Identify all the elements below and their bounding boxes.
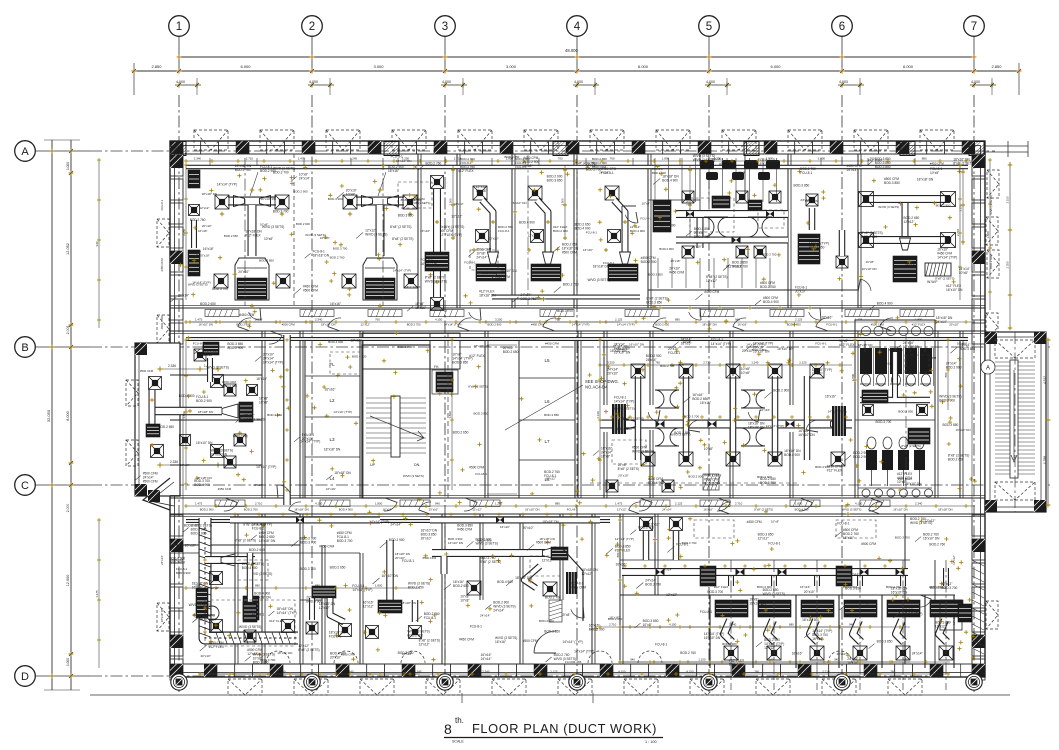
svg-text:16"x16": 16"x16" xyxy=(883,362,893,366)
svg-text:#12" FLEX: #12" FLEX xyxy=(209,645,225,649)
svg-text:BOD.3 850: BOD.3 850 xyxy=(648,272,663,276)
svg-text:4.150: 4.150 xyxy=(618,670,626,674)
column xyxy=(236,141,249,154)
svg-text:#500 CFM: #500 CFM xyxy=(282,323,296,327)
sign xyxy=(205,310,239,317)
svg-text:FCU-8-1: FCU-8-1 xyxy=(586,231,597,235)
brace xyxy=(986,313,998,341)
svg-text:BOD.2 760: BOD.2 760 xyxy=(760,285,776,289)
svg-text:880: 880 xyxy=(315,584,320,588)
svg-text:2.336: 2.336 xyxy=(168,364,176,368)
svg-text:W/VD (3 SETS): W/VD (3 SETS) xyxy=(632,449,654,453)
grid stem 1 xyxy=(178,36,180,71)
svg-text:14"x14" (TYP): 14"x14" (TYP) xyxy=(369,520,389,524)
svg-text:FCU-8-1: FCU-8-1 xyxy=(470,625,482,629)
wall xyxy=(857,154,859,308)
unit grille xyxy=(844,600,877,617)
svg-text:10"x8": 10"x8" xyxy=(460,599,469,603)
window mullion xyxy=(972,203,985,224)
door xyxy=(277,485,290,494)
wall xyxy=(170,464,262,466)
svg-text:FCU-8-1: FCU-8-1 xyxy=(498,229,510,233)
sub dimension 4.000 xyxy=(175,84,201,86)
svg-text:3.150: 3.150 xyxy=(959,204,963,211)
svg-text:8"x8" (2 SETS): 8"x8" (2 SETS) xyxy=(468,385,487,389)
damper xyxy=(656,568,665,575)
sign xyxy=(215,500,245,507)
diffuser xyxy=(631,364,645,378)
window mullion xyxy=(350,141,368,154)
svg-text:#450 CFM: #450 CFM xyxy=(233,435,248,439)
svg-text:BOD.2 760: BOD.2 760 xyxy=(244,508,258,512)
riser xyxy=(679,158,681,166)
svg-text:W/VD (3 SETS): W/VD (3 SETS) xyxy=(193,613,214,617)
svg-text:#450 CFM: #450 CFM xyxy=(218,487,232,491)
unit grille xyxy=(887,600,920,617)
svg-text:12"x12": 12"x12" xyxy=(363,605,374,609)
brace xyxy=(624,679,658,695)
duct run xyxy=(804,376,811,460)
svg-text:10"x8": 10"x8" xyxy=(259,401,268,405)
svg-text:12"x12": 12"x12" xyxy=(758,536,769,540)
inner dim xyxy=(620,626,860,628)
wc xyxy=(882,450,893,470)
basin xyxy=(911,326,920,335)
svg-text:BOD.3 700: BOD.3 700 xyxy=(212,287,228,291)
svg-text:BOD.4 900: BOD.4 900 xyxy=(352,355,367,359)
svg-text:16"x16": 16"x16" xyxy=(738,323,748,327)
brace xyxy=(656,130,690,150)
window mullion xyxy=(465,141,483,154)
duct run xyxy=(412,600,419,622)
diffuser xyxy=(211,445,224,458)
svg-text:14"x14" (TYP): 14"x14" (TYP) xyxy=(766,424,784,428)
svg-text:4.000: 4.000 xyxy=(971,80,980,84)
svg-text:FCU-8-1: FCU-8-1 xyxy=(160,199,164,210)
svg-text:3.000: 3.000 xyxy=(373,64,384,69)
svg-text:W/VD (3 SETS): W/VD (3 SETS) xyxy=(588,278,610,282)
wall xyxy=(654,514,656,595)
svg-text:BOD.3 700: BOD.3 700 xyxy=(260,658,275,662)
svg-text:12"x12": 12"x12" xyxy=(542,559,553,563)
diffuser xyxy=(343,195,357,209)
svg-text:BOD.2 650: BOD.2 650 xyxy=(655,323,669,327)
svg-text:#12" FLEX: #12" FLEX xyxy=(827,469,843,473)
diffuser xyxy=(275,195,289,209)
unit grille xyxy=(146,424,160,437)
svg-text:2.340: 2.340 xyxy=(255,318,263,322)
svg-text:BOD.4 900: BOD.4 900 xyxy=(200,618,216,622)
window mullion xyxy=(972,275,985,296)
unit grille xyxy=(715,600,748,617)
svg-text:12"x12": 12"x12" xyxy=(900,459,910,463)
svg-text:20"x10": 20"x10" xyxy=(199,253,209,257)
grid centerline xyxy=(90,484,1050,486)
dim row xyxy=(186,321,975,323)
window mullion xyxy=(170,635,183,656)
svg-text:6.000: 6.000 xyxy=(240,64,251,69)
diffuser xyxy=(211,375,224,388)
partition dashed xyxy=(447,333,449,498)
duct run xyxy=(191,220,197,248)
shear wall marker xyxy=(171,142,186,156)
diffuser xyxy=(736,191,748,203)
column xyxy=(1034,332,1046,344)
svg-text:16"x10" DN: 16"x10" DN xyxy=(956,428,971,432)
sign xyxy=(430,310,464,317)
door xyxy=(689,312,701,320)
column xyxy=(864,664,877,677)
svg-text:BOD.4 900: BOD.4 900 xyxy=(328,197,343,201)
column xyxy=(1034,500,1046,512)
duct run xyxy=(676,210,788,218)
inner dim xyxy=(660,307,830,309)
door xyxy=(629,502,641,510)
basin xyxy=(887,489,895,497)
door xyxy=(869,502,881,510)
grid centerline xyxy=(841,95,843,692)
svg-text:SCALE: SCALE xyxy=(452,740,464,744)
svg-text:14"x14" (TYP): 14"x14" (TYP) xyxy=(574,649,594,653)
svg-text:16"x10" DN: 16"x10" DN xyxy=(923,537,940,541)
svg-text:BOD.3 850: BOD.3 850 xyxy=(474,412,489,416)
unit grille xyxy=(608,264,638,281)
grid stem 6 xyxy=(841,36,843,71)
grid bubble 3 xyxy=(435,16,456,37)
window mullion xyxy=(714,664,732,677)
svg-text:BOD.4 900: BOD.4 900 xyxy=(497,580,513,584)
window mullion xyxy=(499,664,517,677)
svg-text:8"x8" (2 SETS): 8"x8" (2 SETS) xyxy=(935,277,954,281)
svg-text:4: 4 xyxy=(574,21,581,33)
svg-text:1.245: 1.245 xyxy=(414,670,422,674)
door xyxy=(249,312,261,320)
unit grille xyxy=(239,402,253,422)
riser xyxy=(444,158,446,166)
diffuser xyxy=(224,384,236,396)
window mullion xyxy=(843,141,861,154)
svg-text:16"x10" DN: 16"x10" DN xyxy=(500,269,517,273)
svg-text:BOD.3 700: BOD.3 700 xyxy=(407,323,421,327)
room column wall xyxy=(305,340,360,498)
svg-text:2: 2 xyxy=(309,21,315,33)
duct run xyxy=(376,205,385,256)
svg-text:BOD.3 700: BOD.3 700 xyxy=(273,171,289,175)
stair arrow xyxy=(1011,370,1017,462)
grid centerline xyxy=(90,675,940,677)
svg-text:1.800: 1.800 xyxy=(448,411,452,419)
wall xyxy=(261,331,263,498)
door xyxy=(458,318,471,327)
svg-text:BOD.2 650: BOD.2 650 xyxy=(787,323,801,327)
svg-text:BOD.3 850: BOD.3 850 xyxy=(898,410,913,414)
svg-text:BOD.4 900: BOD.4 900 xyxy=(662,178,678,182)
svg-text:BOD.2 650: BOD.2 650 xyxy=(948,457,964,461)
sub dimension 4.000 xyxy=(441,84,467,86)
svg-text:8"x8" (2 SETS): 8"x8" (2 SETS) xyxy=(298,648,319,652)
dim row xyxy=(200,673,950,675)
window mullion xyxy=(284,141,302,154)
window mullion xyxy=(943,664,961,677)
diffuser xyxy=(810,364,824,378)
svg-text:BOD.2 760: BOD.2 760 xyxy=(645,583,661,587)
diffuser xyxy=(605,186,619,200)
window mullion xyxy=(249,141,267,154)
svg-text:#12" FLEX: #12" FLEX xyxy=(839,343,855,347)
window mullion xyxy=(697,664,715,677)
duct run xyxy=(643,531,650,560)
diffuser xyxy=(679,452,693,466)
v dim row xyxy=(185,165,187,300)
duct run xyxy=(676,237,788,244)
column xyxy=(170,539,183,552)
svg-text:FCU-8-1: FCU-8-1 xyxy=(402,559,414,563)
sign xyxy=(845,310,879,317)
svg-text:1.245: 1.245 xyxy=(350,157,358,161)
svg-text:16"x10" DN: 16"x10" DN xyxy=(777,347,794,351)
basin xyxy=(886,326,895,335)
svg-text:20"x10": 20"x10" xyxy=(607,371,618,375)
door xyxy=(809,312,821,320)
window mullion xyxy=(763,664,781,677)
svg-text:BOD.3 700: BOD.3 700 xyxy=(682,541,697,545)
basin xyxy=(874,326,883,335)
duct run xyxy=(186,165,968,170)
svg-text:BOD.4 900: BOD.4 900 xyxy=(339,508,353,512)
window mullion xyxy=(972,611,985,632)
svg-text:12"x12": 12"x12" xyxy=(849,572,859,576)
diffuser xyxy=(640,518,653,531)
diffuser xyxy=(896,646,910,660)
svg-text:2.340: 2.340 xyxy=(315,318,323,322)
unit grille xyxy=(188,170,200,188)
window mullion xyxy=(170,611,183,632)
svg-text:FCU-8-1: FCU-8-1 xyxy=(616,347,627,351)
column xyxy=(930,664,943,677)
svg-text:W/VD (3 SETS): W/VD (3 SETS) xyxy=(842,508,862,512)
grid bubble 5 xyxy=(699,16,720,37)
v dim row xyxy=(947,340,949,410)
svg-text:16"x16": 16"x16" xyxy=(812,637,823,641)
diffuser xyxy=(409,626,422,639)
window mullion xyxy=(531,141,549,154)
svg-text:16"x16": 16"x16" xyxy=(320,236,330,240)
brace xyxy=(360,679,394,695)
svg-text:24"x14": 24"x14" xyxy=(178,293,189,297)
unit grille xyxy=(748,200,762,210)
wall line xyxy=(170,153,985,155)
brace xyxy=(920,130,954,150)
duct run xyxy=(247,553,254,602)
diffuser xyxy=(247,385,258,396)
dashed boxes xyxy=(398,182,432,208)
diffuser xyxy=(473,186,487,200)
brace xyxy=(995,340,1035,358)
top-right extension xyxy=(985,145,1028,147)
svg-text:BOD.2 900: BOD.2 900 xyxy=(660,224,676,228)
svg-text:1.800: 1.800 xyxy=(375,584,383,588)
basin xyxy=(912,489,920,497)
svg-text:BOD.3 850: BOD.3 850 xyxy=(959,347,975,351)
unit grille xyxy=(836,566,852,586)
brace xyxy=(995,482,1035,500)
svg-text:18"x18" DN: 18"x18" DN xyxy=(313,253,330,257)
svg-text:BOD.4 900: BOD.4 900 xyxy=(242,566,258,570)
svg-text:10"x8": 10"x8" xyxy=(523,164,532,168)
svg-text:12"x12": 12"x12" xyxy=(319,606,330,610)
damper xyxy=(686,211,694,217)
unit grille xyxy=(758,600,791,617)
svg-text:18"x18" DN: 18"x18" DN xyxy=(903,345,920,349)
svg-text:BOD.4 900: BOD.4 900 xyxy=(784,453,800,457)
diffuser xyxy=(768,452,782,466)
svg-text:#12" FLEX: #12" FLEX xyxy=(726,265,742,269)
svg-text:W/VD (3 SETS): W/VD (3 SETS) xyxy=(207,366,229,370)
svg-text:24"x14": 24"x14" xyxy=(662,568,672,572)
brace xyxy=(326,130,360,150)
svg-text:6.000: 6.000 xyxy=(638,64,649,69)
door xyxy=(648,412,658,422)
diffuser xyxy=(941,233,956,248)
grid marker xyxy=(437,674,453,690)
svg-text:BOD.2 650: BOD.2 650 xyxy=(608,617,623,621)
svg-text:16"x16": 16"x16" xyxy=(758,162,769,166)
svg-text:BOD.2 900: BOD.2 900 xyxy=(191,532,207,536)
column xyxy=(368,141,381,154)
svg-text:24"x14": 24"x14" xyxy=(599,170,609,174)
column xyxy=(962,141,975,154)
door xyxy=(639,502,652,511)
door xyxy=(384,502,397,511)
svg-text:L2: L2 xyxy=(329,398,335,403)
svg-text:8"x8" (2 SETS): 8"x8" (2 SETS) xyxy=(901,444,920,448)
svg-text:BOD.4 900: BOD.4 900 xyxy=(519,221,535,225)
sub dimension 4.000 xyxy=(705,84,731,86)
svg-text:#500 CFM: #500 CFM xyxy=(423,556,437,560)
svg-text:#450 CFM: #450 CFM xyxy=(747,520,762,524)
brace xyxy=(492,679,526,695)
svg-text:16"x16": 16"x16" xyxy=(383,508,393,512)
window mullion xyxy=(416,141,434,154)
wall xyxy=(441,514,443,664)
svg-text:14"x14" (TYP): 14"x14" (TYP) xyxy=(393,269,411,273)
window mullion xyxy=(972,515,985,536)
svg-text:12"x12": 12"x12" xyxy=(764,646,775,650)
left wing wall xyxy=(135,343,180,496)
svg-text:BOD.2 900: BOD.2 900 xyxy=(641,260,657,264)
svg-text:4.150: 4.150 xyxy=(855,502,863,506)
window mullion xyxy=(170,323,183,344)
svg-text:FCU-8-1: FCU-8-1 xyxy=(424,616,436,620)
window mullion xyxy=(433,664,451,677)
svg-text:2.125: 2.125 xyxy=(799,361,807,365)
svg-text:#450 CFM: #450 CFM xyxy=(459,638,474,642)
svg-text:BOD.2 760: BOD.2 760 xyxy=(330,255,345,259)
grid stem 7 xyxy=(973,36,975,71)
svg-text:#450 CFM: #450 CFM xyxy=(319,544,334,548)
svg-text:14"x14" (TYP): 14"x14" (TYP) xyxy=(937,256,957,260)
svg-text:16"x16": 16"x16" xyxy=(822,316,833,320)
door swing xyxy=(638,651,662,663)
unit grille xyxy=(188,250,200,276)
sign xyxy=(900,310,934,317)
duct run xyxy=(810,620,818,642)
duct run xyxy=(186,519,610,523)
svg-text:16"x16": 16"x16" xyxy=(476,189,487,193)
door swing xyxy=(334,651,358,663)
svg-text:16"x16": 16"x16" xyxy=(330,302,341,306)
svg-text:760: 760 xyxy=(555,318,560,322)
svg-text:1.800: 1.800 xyxy=(986,231,990,239)
grid centerline xyxy=(444,95,446,692)
grid bubble B xyxy=(15,337,36,358)
room dim strips xyxy=(452,165,454,240)
svg-text:BOD.4 900: BOD.4 900 xyxy=(160,315,164,329)
svg-text:#450 CFM: #450 CFM xyxy=(704,290,719,294)
closet wall xyxy=(881,595,883,668)
wall xyxy=(959,331,961,498)
svg-text:16"x16": 16"x16" xyxy=(905,263,916,267)
brace xyxy=(426,679,460,695)
svg-text:BOD.2 760: BOD.2 760 xyxy=(680,651,696,655)
svg-text:2.125: 2.125 xyxy=(795,318,803,322)
sign xyxy=(770,310,804,317)
svg-text:FCU-8-1: FCU-8-1 xyxy=(700,610,712,614)
unit grille xyxy=(436,372,453,392)
svg-text:880: 880 xyxy=(922,157,927,161)
svg-text:8"x8" (2 SETS): 8"x8" (2 SETS) xyxy=(623,417,644,421)
duct run xyxy=(697,218,704,248)
diffuser xyxy=(403,195,417,209)
svg-text:2.710: 2.710 xyxy=(609,623,617,627)
damper xyxy=(786,420,795,427)
riser xyxy=(820,158,822,166)
grid stem 5 xyxy=(708,36,710,71)
svg-text:W/VD (3 SETS): W/VD (3 SETS) xyxy=(693,158,715,162)
inner dim xyxy=(190,321,330,323)
duct run xyxy=(283,335,291,505)
wc xyxy=(866,450,877,470)
svg-text:880: 880 xyxy=(555,502,560,506)
svg-text:1.150: 1.150 xyxy=(698,658,706,662)
grid marker xyxy=(569,674,585,690)
window mullion xyxy=(597,141,615,154)
stair core wall xyxy=(362,345,430,498)
closet wall xyxy=(709,595,711,668)
diffuser xyxy=(810,646,824,660)
window mullion xyxy=(349,664,367,677)
wall xyxy=(456,154,458,308)
duct run xyxy=(492,295,640,300)
door xyxy=(289,502,301,510)
right room dim xyxy=(962,168,964,245)
room column wall xyxy=(519,340,575,498)
stair xyxy=(366,397,426,399)
svg-text:12"x12": 12"x12" xyxy=(581,572,592,576)
duct run xyxy=(207,358,213,382)
column xyxy=(170,635,183,648)
svg-text:#450 CFM: #450 CFM xyxy=(669,271,684,275)
svg-text:12"x12": 12"x12" xyxy=(617,508,627,512)
v dim row xyxy=(98,160,100,328)
window mullion xyxy=(846,664,864,677)
svg-text:12"x12": 12"x12" xyxy=(935,625,946,629)
svg-text:12"x12": 12"x12" xyxy=(472,508,482,512)
diffuser xyxy=(859,233,874,248)
svg-text:BOD.2 650: BOD.2 650 xyxy=(330,566,346,570)
svg-text:#500 CFM: #500 CFM xyxy=(303,288,318,292)
duct run xyxy=(730,376,737,460)
